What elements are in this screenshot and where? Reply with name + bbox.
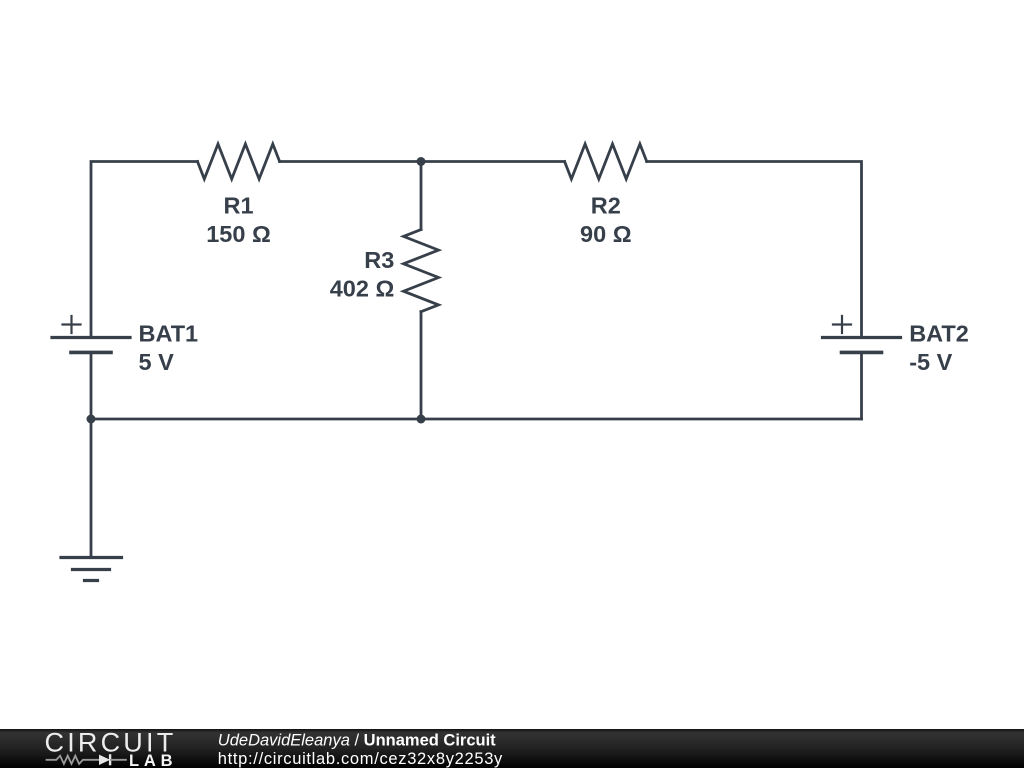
wire node A to R2: [421, 160, 565, 163]
bottom node junction dot: [417, 415, 426, 424]
battery BAT1 plus sign: [63, 316, 81, 333]
wire R2 to right rail, down to BAT2: [647, 162, 862, 338]
wire top-left: left rail top corner to R1: [91, 162, 198, 338]
node A junction dot: [417, 157, 426, 166]
wire bottom rail: [91, 418, 862, 421]
ground node junction dot: [87, 415, 96, 424]
wire BAT1 to bottom rail: [90, 352, 93, 419]
svg-text:LAB: LAB: [129, 752, 177, 768]
logo diode: [99, 755, 110, 765]
svg-text:R1: R1: [223, 192, 253, 218]
resistor R2: [565, 144, 647, 179]
resistor R3: [404, 230, 439, 312]
wire BAT2 down to bottom rail: [860, 352, 863, 419]
svg-text:BAT2: BAT2: [909, 320, 969, 346]
svg-text:R2: R2: [591, 192, 621, 218]
svg-text:150 Ω: 150 Ω: [206, 221, 271, 247]
svg-text:5 V: 5 V: [139, 349, 175, 375]
svg-text:BAT1: BAT1: [139, 320, 199, 346]
wire node A down to R3: [420, 162, 423, 230]
wire ground stem: [90, 419, 93, 558]
svg-text:90 Ω: 90 Ω: [580, 221, 632, 247]
resistor R1: [198, 144, 280, 179]
battery BAT1 plates: [52, 336, 130, 339]
svg-text:http://circuitlab.com/cez32x8y: http://circuitlab.com/cez32x8y2253y: [218, 750, 503, 768]
svg-text:UdeDavidEleanya / Unnamed Circ: UdeDavidEleanya / Unnamed Circuit: [218, 732, 496, 750]
battery BAT2 plus sign: [833, 316, 851, 333]
wire R1 to node A: [280, 160, 421, 163]
battery BAT2 plates: [823, 336, 901, 339]
logo squiggle wire: [46, 756, 99, 764]
svg-text:R3: R3: [364, 247, 394, 273]
ground: [61, 556, 122, 559]
svg-text:402 Ω: 402 Ω: [330, 276, 395, 302]
wire R3 to bottom node: [420, 312, 423, 419]
svg-text:-5 V: -5 V: [909, 349, 952, 375]
